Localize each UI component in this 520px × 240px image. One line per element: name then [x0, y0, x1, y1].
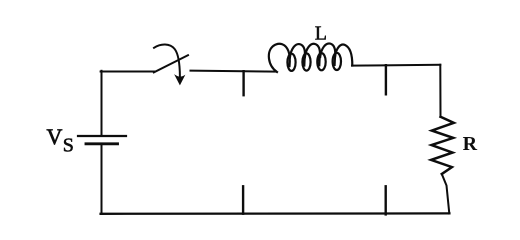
- svg-text:R: R: [463, 133, 478, 155]
- wire right vertical below resistor: [442, 174, 450, 214]
- resistor R zigzag: [431, 117, 454, 174]
- label L: [315, 23, 327, 45]
- node tick bottom-left: [242, 186, 244, 213]
- wire bottom horizontal: [101, 212, 450, 215]
- wire top left segment: [101, 71, 155, 73]
- wire left vertical top (source top terminal): [101, 71, 103, 136]
- svg-text:L: L: [315, 23, 327, 45]
- wire left vertical bottom: [101, 144, 103, 214]
- switch blade: [154, 55, 188, 72]
- wire top middle segment: [191, 71, 277, 72]
- node tick top-left: [242, 71, 244, 95]
- switch actuation arrow: [154, 44, 185, 85]
- svg-text:V: V: [47, 124, 63, 149]
- wire top right segment: [352, 64, 440, 67]
- label VS: [47, 124, 74, 157]
- svg-text:S: S: [63, 135, 74, 157]
- node tick bottom-right: [385, 186, 387, 214]
- node tick top-right: [385, 65, 387, 94]
- label R: [463, 133, 478, 155]
- voltage source VS battery plates: [78, 136, 126, 144]
- wire right vertical above resistor: [439, 65, 441, 117]
- inductor L coil: [269, 43, 352, 72]
